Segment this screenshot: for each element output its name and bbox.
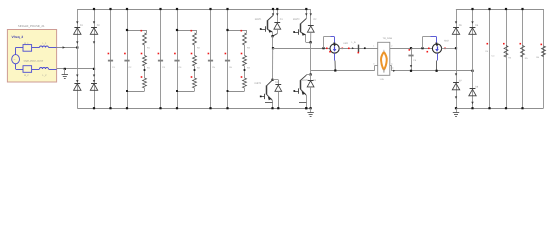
svg-text:~: ~ — [13, 58, 15, 62]
node dot top rail end — [305, 107, 307, 109]
transformer flame icon — [381, 50, 387, 73]
resistor R_s1 — [16, 42, 32, 51]
svg-text:R3: R3 — [247, 46, 251, 49]
svg-text:IGBT1: IGBT1 — [255, 18, 262, 21]
node dots rectifier rails — [455, 8, 474, 109]
wire DC- bottom rail (right) — [456, 108, 544, 110]
svg-text:2: 2 — [391, 45, 393, 48]
ammeter AM1 — [326, 42, 349, 53]
svg-text:Co: Co — [492, 54, 496, 57]
wire source bottom to bridge node B — [57, 68, 96, 70]
diode Dq3 (antiparallel lower leg1) — [273, 80, 282, 110]
wire bridge leg x=77.3 — [77, 9, 79, 108]
svg-text:R6: R6 — [536, 56, 540, 59]
svg-text:D1: D1 — [280, 18, 284, 21]
wire rectifier leg x=456 — [456, 9, 458, 108]
diode Dq4 (antiparallel lower leg2) — [307, 75, 317, 110]
svg-text:C6: C6 — [485, 50, 489, 53]
wire arrows leg x=94 — [93, 41, 95, 77]
diode D8 — [469, 85, 479, 96]
inductor L_s2 — [32, 68, 57, 78]
diode D6 — [469, 21, 479, 34]
wire H-bridge mid to ammeter — [273, 47, 330, 49]
capacitor C4 branch — [174, 8, 182, 109]
diode D7 — [452, 79, 462, 90]
svg-text:D6: D6 — [475, 24, 479, 27]
svg-text:SINGLE_PHASE_21: SINGLE_PHASE_21 — [18, 24, 45, 28]
svg-text:AM2: AM2 — [444, 40, 449, 43]
ground G2 — [307, 108, 313, 116]
resistor R_o2 branch — [520, 8, 529, 109]
IGBT Q3 (lower leg1) — [255, 48, 274, 109]
svg-text:L_lk: L_lk — [352, 41, 357, 44]
svg-text:D2: D2 — [314, 18, 318, 21]
svg-text:C1: C1 — [112, 66, 116, 69]
ground G1 — [62, 69, 68, 79]
svg-text:R4: R4 — [508, 56, 512, 59]
svg-text:C4: C4 — [179, 66, 183, 69]
transformer TR_DAB — [373, 37, 393, 81]
node rail dots bridge — [93, 8, 95, 109]
capacitor C2 branch — [124, 8, 132, 109]
diode D5 — [452, 21, 462, 34]
wire DC+ top rail (left) — [77, 9, 310, 11]
ammeter AM2 signal bracket — [423, 37, 438, 49]
svg-text:TR_DAB: TR_DAB — [383, 37, 393, 40]
inductor L_s1 — [32, 42, 57, 47]
capacitor C_out branch — [485, 8, 495, 109]
svg-text:AM1: AM1 — [343, 42, 348, 45]
IGBT Q4 (lower leg2) — [293, 71, 311, 110]
ground G3 — [453, 108, 459, 116]
capacitor C3 branch — [158, 8, 166, 109]
wire ammeter AM1 to L_lk — [339, 47, 377, 49]
wire DC- bottom rail (left) — [77, 108, 310, 110]
diode D2 — [90, 21, 100, 34]
svg-text:4: 4 — [392, 67, 394, 70]
svg-text:R1: R1 — [147, 46, 151, 49]
diode D1 — [74, 21, 84, 34]
wire leg2 mid down — [310, 42, 312, 70]
wire AM2 to rectifier — [442, 47, 458, 49]
capacitor C5 branch — [208, 8, 216, 109]
svg-text:C5: C5 — [413, 59, 417, 62]
resistor chain R2a/R2b/R2c — [176, 29, 201, 92]
resistor R_s2 — [16, 66, 32, 77]
svg-text:IGBT2: IGBT2 — [293, 18, 300, 21]
svg-text:1: 1 — [373, 45, 375, 48]
svg-text:R2: R2 — [197, 46, 201, 49]
ammeter AM2 output wire down — [437, 53, 438, 71]
capacitor C6 branch — [225, 8, 233, 109]
svg-text:D2: D2 — [97, 24, 101, 27]
svg-text:D7: D7 — [459, 79, 463, 82]
diode Dq1 (antiparallel upper leg1) — [271, 8, 283, 37]
resistor chain R3a/R3b/R3c — [226, 29, 250, 92]
wire leg2 mid to TR pin3 — [311, 66, 378, 72]
svg-text:C3: C3 — [162, 66, 166, 69]
capacitor C1 branch — [108, 8, 116, 109]
svg-text:D1: D1 — [80, 24, 84, 27]
svg-text:L_1: L_1 — [43, 42, 48, 45]
svg-text:D8: D8 — [475, 85, 479, 88]
wire source top to bridge node A — [57, 46, 79, 48]
wire TR to node C — [390, 47, 433, 51]
diode Dq2 (antiparallel upper leg2) — [307, 9, 317, 43]
svg-text:Vfreq_2: Vfreq_2 — [12, 35, 24, 39]
wire DC+ top rail (right) — [456, 9, 544, 11]
capacitor C5 (DC block) — [408, 48, 416, 71]
diode D3 — [74, 80, 81, 90]
ammeter AM1 signal bracket — [324, 37, 336, 49]
svg-text:single_phase_source: single_phase_source — [24, 59, 44, 62]
wire arrows leg x=77.3 — [76, 41, 78, 77]
wire arrows rectifier — [455, 73, 474, 104]
ammeter AM1 output wire down — [334, 53, 337, 70]
wire bridge leg x=94 — [94, 9, 96, 108]
svg-text:D5: D5 — [459, 24, 463, 27]
wire leg1 mid — [272, 36, 274, 49]
svg-text:IGBT3: IGBT3 — [255, 82, 262, 85]
svg-text:R2: R2 — [197, 66, 201, 69]
svg-text:R_2: R_2 — [24, 74, 29, 77]
AC voltage source V1 — [12, 48, 44, 70]
subsystem box Vfreq_2 — [7, 30, 56, 83]
resistor chain R1a/R1b/R1c — [126, 29, 151, 92]
svg-text:C2: C2 — [129, 66, 133, 69]
svg-text:C6: C6 — [229, 66, 233, 69]
svg-text:R1: R1 — [147, 66, 151, 69]
diode D4 — [90, 80, 97, 90]
svg-text:R_1: R_1 — [24, 42, 29, 45]
inductor L_lk — [352, 41, 366, 53]
ammeter AM2 — [427, 40, 450, 54]
resistor R_o1 branch — [503, 8, 512, 109]
wire TR pin4 to rectifier — [390, 66, 474, 72]
svg-text:R3: R3 — [247, 66, 251, 69]
IGBT Q1 (upper leg1) — [255, 8, 274, 36]
svg-text:D4: D4 — [313, 79, 317, 82]
svg-text:R5: R5 — [525, 57, 529, 60]
wire rectifier leg x=472.5 — [472, 9, 474, 108]
svg-text:C5: C5 — [212, 66, 216, 69]
resistor R_load branch — [536, 9, 545, 108]
svg-text:1.05: 1.05 — [380, 78, 385, 81]
IGBT Q2 (upper leg2) — [293, 8, 311, 43]
svg-text:L_2: L_2 — [43, 74, 48, 77]
